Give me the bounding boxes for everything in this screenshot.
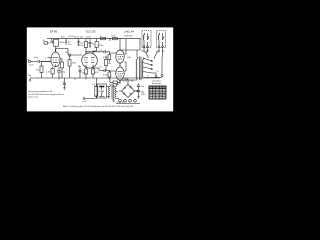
svg-text:10n: 10n (65, 52, 68, 54)
capacitor C1 (34, 57, 51, 63)
svg-text:470k: 470k (72, 63, 76, 65)
B plus riser (137, 39, 140, 50)
svg-text:6,3V 5V: 6,3V 5V (117, 102, 125, 104)
svg-text:Spannungsangaben sind: Spannungsangaben sind (28, 91, 53, 93)
tuner unit internals (143, 33, 149, 47)
capacitor C3 cathode bypass (57, 67, 66, 78)
svg-text:0,1µ: 0,1µ (34, 57, 39, 59)
tube EL84 lower V4 (116, 65, 124, 83)
coupling capacitor C4 (56, 49, 82, 57)
screen rail wire (109, 39, 111, 41)
tube EF86 V1 (51, 49, 60, 68)
rail smudge labels (68, 36, 83, 39)
svg-text:250V: 250V (86, 36, 91, 38)
svg-text:EF 86: EF 86 (50, 30, 58, 34)
B+ junction labels (109, 36, 140, 40)
svg-text:150k: 150k (79, 45, 83, 47)
wire grid to EF86 (42, 61, 52, 63)
ground symbol marks (28, 74, 32, 81)
transformer T1 core (140, 57, 142, 81)
speaker output terminal Ls (147, 57, 163, 78)
svg-text:gemessen: gemessen (28, 97, 39, 99)
resistor R15 screen divider (57, 59, 64, 79)
resistor R5 to ground (68, 55, 76, 78)
ground ticks (59, 78, 110, 80)
psu caption line (116, 102, 140, 104)
capacitor C12 decoupling (77, 39, 83, 46)
svg-text:2mV: 2mV (29, 65, 34, 67)
capacitor C11 rail decoupling (89, 39, 95, 48)
pickup unit internals (158, 33, 164, 47)
svg-text:250V: 250V (111, 36, 116, 38)
svg-text:215V: 215V (74, 36, 79, 38)
resistor R2 plate load (54, 39, 64, 52)
resistor R4 cathode (46, 67, 54, 78)
resistor R11 grid lower EL84 (103, 71, 116, 79)
svg-text:100k: 100k (60, 42, 64, 44)
svg-text:50n: 50n (68, 44, 71, 46)
capacitor C2 screen bypass (61, 36, 72, 46)
svg-text:+270V: +270V (68, 36, 75, 38)
svg-text:ECC 83: ECC 83 (86, 30, 96, 34)
resistor R1 grid leak (36, 62, 43, 79)
svg-text:270Ω 5W: 270Ω 5W (124, 36, 133, 38)
bridge rectifier D1 (119, 79, 138, 98)
resistor R16 splitter divider (105, 56, 112, 71)
power transformer T2 (107, 84, 120, 99)
resistor R14 rail decoupler (74, 36, 106, 40)
capacitor C10 cathode bypass b (78, 66, 86, 78)
box labels (141, 50, 165, 53)
bridge label (123, 81, 135, 83)
svg-text:350V: 350V (141, 94, 146, 96)
mains stubs (95, 87, 98, 97)
tube ECC83 V2 (82, 51, 98, 68)
page background (27, 27, 173, 111)
svg-text:5k: 5k (100, 36, 102, 38)
svg-text:mit 20 kΩ/V-Instrument gegen M: mit 20 kΩ/V-Instrument gegen Masse (28, 93, 65, 96)
capacitor C9 to ground (63, 78, 67, 89)
resistor R6 plate a (79, 39, 88, 54)
filter capacitors C7 C8 (135, 84, 147, 99)
screen feed wires (120, 39, 132, 71)
capacitor C6 coupling lower (93, 67, 110, 73)
B+ rail (47, 38, 140, 40)
dashed box tuner unit (142, 31, 151, 48)
svg-text:1M: 1M (108, 63, 111, 65)
caption (63, 105, 134, 108)
mains block fuse switch (97, 84, 107, 98)
resistor R3 screen (43, 39, 54, 45)
resistor R12 common cathode (110, 78, 120, 88)
transformer T1 secondary with taps (142, 58, 152, 78)
output transformer T1 primary (120, 50, 138, 80)
table cell smudges (150, 90, 167, 100)
data table (149, 86, 166, 99)
feedback resistor R13 (82, 78, 104, 103)
svg-text:v. LS: v. LS (82, 101, 87, 103)
input terminal J1 (28, 59, 37, 67)
heater terminals (112, 98, 136, 102)
resistor R17 rail dropper (113, 38, 118, 40)
resistor R7 plate b (93, 39, 103, 54)
table label (152, 80, 162, 86)
capacitor C5 coupling upper (86, 50, 110, 54)
resistor R9 cathode b (91, 68, 99, 78)
dashed box pickup unit (157, 31, 166, 48)
resistor R10 grid upper EL84 (103, 52, 116, 62)
ground rail (30, 77, 160, 79)
secondary tap arrows (151, 60, 153, 69)
svg-text:2M: 2M (80, 36, 83, 38)
svg-text:2×EL 84: 2×EL 84 (124, 30, 134, 34)
pin stub EF86 (45, 58, 51, 60)
svg-text:5n: 5n (63, 82, 65, 84)
voltage note text (28, 91, 65, 99)
tube EL84 upper V3 (116, 46, 124, 66)
resistor R8 cathode a (84, 68, 87, 78)
svg-text:Ausgänge: Ausgänge (152, 82, 162, 85)
svg-text:150k: 150k (99, 45, 103, 47)
wires from boxes down (144, 47, 163, 58)
svg-text:Bild 2. Schaltung des 10-W-Ver: Bild 2. Schaltung des 10-W-Verstärkers m… (63, 105, 134, 108)
svg-text:1M: 1M (36, 70, 39, 72)
